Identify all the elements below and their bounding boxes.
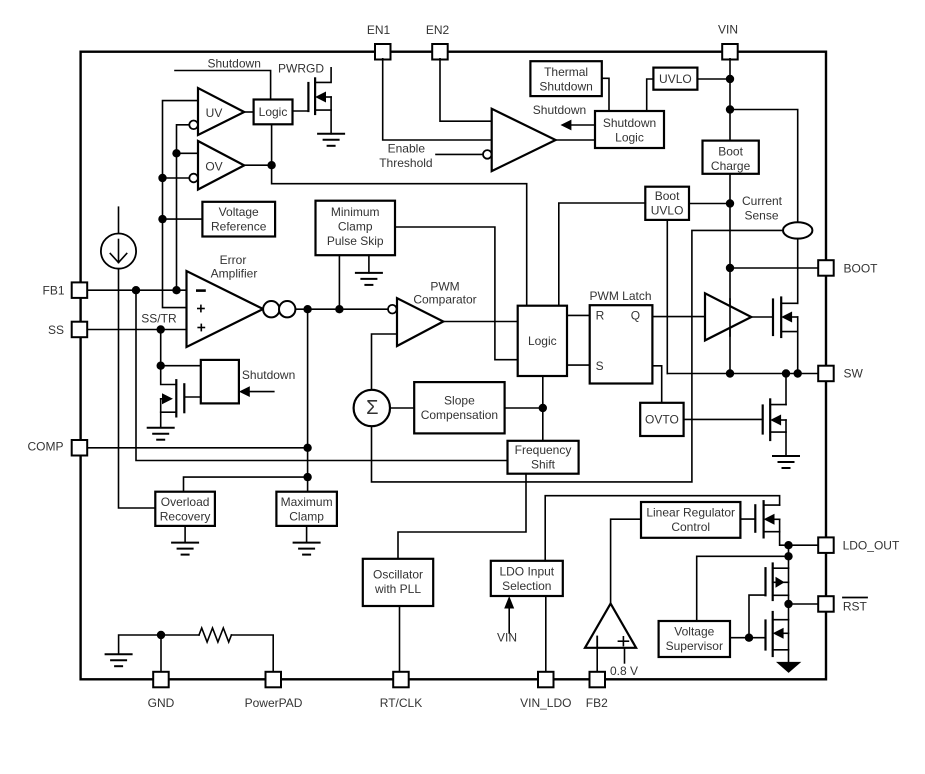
pin EN2: [426, 23, 450, 60]
wire Overload Recovery output to COMP rail: [184, 477, 308, 492]
wire resistor to PowerPAD pin: [231, 635, 273, 671]
label Shutdown with arrow out of Shutdown Logic: [533, 103, 595, 130]
svg-text:Shutdown: Shutdown: [603, 116, 656, 130]
svg-text:Shutdown: Shutdown: [539, 80, 592, 94]
wire FB1 to error amplifier inverting input: [88, 289, 186, 291]
svg-text:PWM: PWM: [430, 280, 459, 294]
wire Voltage Reference to reference rail: [163, 218, 203, 220]
svg-text:LDO_OUT: LDO_OUT: [843, 539, 900, 553]
ground Maximum Clamp: [294, 543, 320, 555]
pin GND: [148, 672, 175, 710]
svg-text:Control: Control: [671, 520, 710, 534]
junction feedback rail at OV upper input: [172, 149, 180, 157]
svg-text:Logic: Logic: [615, 131, 644, 145]
junction LDO_OUT node: [784, 541, 792, 549]
wire sense tap to Voltage Supervisor: [697, 556, 789, 621]
comparator PWM: [397, 280, 477, 347]
block Logic (PWM control logic): [518, 306, 567, 376]
block Linear Regulator Control: [641, 502, 740, 538]
block Slope Compensation: [414, 382, 504, 433]
junction logic rail at slope compensation: [539, 404, 547, 412]
block Voltage Reference: [202, 202, 275, 237]
wire EN2 to enable comparator: [440, 59, 492, 121]
wire VIN rail below Boot Charge down to SW node: [729, 174, 731, 374]
wire sigma to Slope Compensation: [390, 407, 414, 409]
ground SS shutdown FET source: [148, 428, 174, 440]
svg-text:Charge: Charge: [711, 159, 751, 173]
junction FB1 node to frequency shift rail: [132, 286, 140, 294]
current source SS charge current: [101, 207, 136, 269]
junction SW at low side FET drain: [782, 369, 790, 377]
svg-text:Voltage: Voltage: [674, 625, 714, 639]
block Logic (power good logic): [254, 100, 293, 125]
wire EN1 to enable comparator: [383, 59, 492, 140]
comparator UV: [198, 88, 244, 135]
junction boot rail at BOOT pin wire: [726, 264, 734, 272]
junction SS clamp node: [157, 362, 165, 370]
pin BOOT: [818, 260, 878, 276]
wire BOOT pin: [730, 267, 818, 269]
wire RST pin: [789, 603, 819, 605]
wire SS node down to shutdown clamp: [160, 330, 162, 366]
junction SW at high side FET source: [794, 369, 802, 377]
ground flag (filled triangle) at RST rail: [776, 662, 801, 673]
wire PWM comparator output to Logic: [443, 321, 517, 323]
node COMP vertical rail: [307, 309, 309, 492]
wire Boot UVLO to PWM logic: [559, 203, 646, 306]
wire error amplifier output to PWM comparator: [295, 308, 388, 310]
svg-text:LDO Input: LDO Input: [499, 565, 554, 579]
svg-text:Threshold: Threshold: [379, 156, 432, 170]
junction reference rail at Voltage Reference: [158, 215, 166, 223]
label Enable Threshold with wire to comparator bubble input: [379, 142, 483, 171]
wire Slope Compensation to logic rail: [505, 407, 543, 409]
svg-text:VIN: VIN: [718, 23, 738, 37]
wire Logic to latch S input: [567, 364, 590, 366]
svg-text:Amplifier: Amplifier: [211, 267, 258, 281]
wire LDO comparator output to Linear Regulator Control: [611, 519, 641, 603]
wire Oscillator to RT/CLK pin: [399, 606, 401, 671]
junction minimum clamp tap: [335, 305, 343, 313]
block Voltage Supervisor: [659, 621, 730, 657]
svg-text:Supervisor: Supervisor: [666, 639, 723, 653]
wire Shutdown signal to Logic: [175, 57, 271, 100]
svg-text:Minimum: Minimum: [331, 205, 380, 219]
svg-text:Recovery: Recovery: [160, 510, 211, 524]
svg-text:Error: Error: [220, 253, 247, 267]
transistor low side FET: [763, 374, 786, 457]
op-amp LDO feedback comparator: [585, 604, 636, 648]
svg-text:Boot: Boot: [718, 145, 743, 159]
wire Boot UVLO to boot rail: [689, 203, 730, 205]
wire OV upper input tap: [177, 152, 199, 154]
junction reference rail at OV lower input: [158, 174, 166, 182]
pin RST (active low): [818, 596, 867, 613]
svg-text:PWM Latch: PWM Latch: [590, 289, 652, 303]
svg-text:COMP: COMP: [28, 440, 64, 454]
junction RST node: [784, 600, 792, 608]
wire current sense output to summing node: [372, 230, 784, 482]
ground Overload Recovery: [172, 543, 198, 555]
wire reference rail to UV upper input and error amp + input: [163, 101, 199, 308]
svg-text:VIN: VIN: [497, 631, 517, 645]
wire current source to Overload Recovery: [119, 269, 156, 508]
block Shutdown Logic: [595, 111, 664, 148]
wire OVTO to low side FET gate: [684, 418, 763, 420]
svg-text:with PLL: with PLL: [374, 582, 421, 596]
block Overload Recovery: [155, 492, 215, 526]
svg-text:PWRGD: PWRGD: [278, 62, 324, 76]
wire Logic to PWRGD transistor gate: [293, 110, 309, 112]
svg-text:FB1: FB1: [42, 284, 64, 298]
wire VIN to current sense branch: [730, 110, 798, 223]
ground chassis at GND network: [106, 654, 132, 666]
comparator enable: [492, 109, 556, 171]
wire OV lower input from reference rail: [163, 177, 190, 179]
wire FB1 down to Frequency Shift: [136, 290, 508, 460]
wire Overload Recovery ground stub: [184, 526, 186, 543]
wire UV output to Logic: [244, 111, 253, 113]
wire UVLO to VIN rail: [697, 78, 730, 80]
junction COMP node at error amp output: [303, 305, 311, 313]
svg-text:Maximum: Maximum: [281, 495, 333, 509]
label Shutdown with arrow into clamp block: [239, 368, 295, 397]
pin COMP: [28, 440, 88, 456]
block Thermal Shutdown: [530, 61, 601, 96]
pin SS: [48, 322, 87, 338]
svg-text:R: R: [596, 309, 605, 323]
input bubble UV lower input: [189, 121, 198, 130]
svg-text:UV: UV: [206, 106, 223, 120]
wire Boot UVLO bottom to SW line: [666, 220, 668, 374]
transistor SS shutdown discharge FET: [161, 366, 201, 428]
svg-text:Shutdown: Shutdown: [208, 57, 261, 71]
ground PWRGD source: [318, 134, 344, 146]
svg-text:Logic: Logic: [528, 334, 557, 348]
current sense element (ellipse): [783, 222, 812, 238]
svg-text:PowerPAD: PowerPAD: [245, 696, 303, 710]
svg-text:Comparator: Comparator: [413, 293, 476, 307]
svg-text:RST: RST: [843, 600, 868, 614]
block Minimum Clamp Pulse Skip: [316, 201, 396, 256]
input bubble OV lower input: [189, 174, 198, 183]
svg-text:Pulse Skip: Pulse Skip: [327, 234, 384, 248]
wire Logic bottom to OV output node and across to PWM Logic: [272, 124, 527, 305]
wire 0.8V reference stub: [624, 648, 626, 663]
svg-text:SS/TR: SS/TR: [141, 312, 177, 326]
wire Minimum Clamp tap to error amp output: [338, 255, 340, 309]
svg-text:UVLO: UVLO: [659, 72, 692, 86]
svg-text:Shutdown: Shutdown: [533, 103, 586, 117]
block OVTO: [640, 403, 683, 436]
transistor RST upper FET: [749, 564, 789, 638]
wire Thermal Shutdown to Shutdown Logic: [602, 78, 609, 111]
junction COMP rail at COMP pin wire: [303, 444, 311, 452]
wire FB2 pin to comparator input: [596, 648, 598, 671]
transistor LDO pass FET: [740, 501, 788, 545]
svg-text:Linear Regulator: Linear Regulator: [646, 506, 735, 520]
svg-text:GND: GND: [148, 696, 175, 710]
wire COMP pin: [88, 447, 307, 449]
label Current Sense: [742, 194, 783, 223]
block Boot UVLO: [645, 187, 689, 220]
wire VIN_LDO pin to LDO Input Selection: [545, 596, 547, 671]
svg-text:Voltage: Voltage: [219, 205, 259, 219]
svg-text:Reference: Reference: [211, 220, 267, 234]
svg-text:EN2: EN2: [426, 23, 450, 37]
ground Minimum Clamp: [356, 273, 382, 285]
wire latch to OVTO: [652, 366, 661, 403]
pin VIN_LDO: [520, 672, 571, 710]
block UVLO: [653, 68, 697, 90]
pin PowerPAD: [245, 672, 303, 710]
buffer gate driver: [705, 293, 751, 340]
pin VIN: [718, 23, 738, 60]
wire SS to error amplifier input: [88, 329, 186, 331]
junction FB1 node to UV/OV rail: [172, 286, 180, 294]
block Maximum Clamp: [276, 492, 337, 526]
svg-text:SW: SW: [844, 367, 864, 381]
wire LDO_OUT node down rail to ground flag: [788, 545, 790, 662]
wire feedback rail UV lower input to FB1 node: [177, 125, 190, 290]
svg-text:0.8 V: 0.8 V: [610, 664, 638, 678]
pin LDO_OUT: [818, 537, 900, 553]
junction VIN rail at UVLO: [726, 75, 734, 83]
svg-text:FB2: FB2: [586, 696, 608, 710]
wire OV output: [244, 164, 271, 166]
wire latch Q output to gate driver: [652, 316, 705, 318]
svg-text:Q: Q: [631, 309, 640, 323]
svg-text:Compensation: Compensation: [421, 408, 498, 422]
pin SW: [818, 366, 863, 382]
transistor PWRGD (open-drain output FET): [278, 62, 331, 134]
wire SS clamp node to shutdown block: [161, 365, 201, 367]
wire Maximum Clamp ground stub: [306, 526, 308, 543]
resistor GND to PowerPAD: [199, 628, 231, 642]
input bubble enable threshold: [483, 150, 492, 159]
svg-text:Enable: Enable: [388, 142, 426, 156]
svg-text:Shutdown: Shutdown: [242, 368, 295, 382]
wire Logic bottom to Frequency Shift: [542, 376, 544, 441]
svg-text:Boot: Boot: [655, 189, 680, 203]
junction OV output node: [267, 161, 275, 169]
junction VIN rail current sense branch: [726, 105, 734, 113]
block Frequency Shift: [508, 441, 579, 474]
svg-text:Selection: Selection: [502, 579, 551, 593]
wire UVLO to Shutdown Logic: [647, 79, 654, 111]
IC boundary: [81, 52, 826, 680]
junction boot rail at Boot UVLO: [726, 199, 734, 207]
ground low side FET source: [773, 456, 799, 468]
junction LDO_OUT sense tap: [784, 552, 792, 560]
wire ground stub to GND rail: [119, 635, 199, 654]
block PWM Latch: [590, 289, 653, 384]
summing node sigma: [354, 390, 390, 426]
wire ellipse to high side FET drain: [797, 239, 799, 304]
svg-text:Shift: Shift: [531, 458, 556, 472]
svg-text:Sense: Sense: [744, 209, 778, 223]
wire VIN rail top: [729, 59, 731, 141]
svg-text:Oscillator: Oscillator: [373, 568, 423, 582]
svg-text:S: S: [596, 359, 604, 373]
svg-text:Clamp: Clamp: [289, 510, 324, 524]
wire GND pin stub: [160, 635, 162, 671]
block Boot Charge: [703, 141, 759, 174]
svg-text:VIN_LDO: VIN_LDO: [520, 696, 571, 710]
svg-text:UVLO: UVLO: [651, 204, 684, 218]
svg-text:BOOT: BOOT: [844, 262, 879, 276]
label VIN with arrow into LDO Input Selection: [497, 596, 517, 645]
svg-text:Logic: Logic: [259, 105, 288, 119]
wire LDO_OUT pin: [789, 544, 819, 546]
transistor RST lower FET: [749, 612, 789, 656]
block shutdown clamp (square): [201, 360, 239, 404]
wire Logic to latch R input: [567, 314, 590, 316]
junction GND rail at GND pin: [157, 631, 165, 639]
svg-text:OV: OV: [205, 160, 222, 174]
svg-text:RT/CLK: RT/CLK: [380, 696, 422, 710]
junction gate node of RST FETs: [745, 634, 753, 642]
pin EN1: [367, 23, 391, 60]
pin RT/CLK: [380, 672, 422, 710]
comparator OV: [198, 141, 244, 190]
svg-text:Current: Current: [742, 194, 783, 208]
svg-text:Thermal: Thermal: [544, 65, 588, 79]
svg-text:Slope: Slope: [444, 394, 475, 408]
svg-text:Frequency: Frequency: [515, 443, 572, 457]
svg-text:Clamp: Clamp: [338, 220, 373, 234]
wire summing node to PWM comparator input: [372, 334, 398, 390]
wire Frequency Shift to Oscillator: [398, 474, 526, 559]
junction SW at boot rail: [726, 369, 734, 377]
junction SS node: [157, 325, 165, 333]
block Oscillator with PLL: [363, 559, 433, 606]
block LDO Input Selection: [491, 561, 563, 596]
wire Minimum Clamp ground stub: [368, 255, 370, 273]
op-amp error amplifier: [187, 253, 264, 347]
junction COMP rail at overload recovery: [303, 473, 311, 481]
svg-text:Overload: Overload: [161, 495, 210, 509]
svg-text:Σ: Σ: [366, 397, 378, 419]
error amplifier output gm symbol circles: [263, 301, 279, 317]
wire Voltage Supervisor output to gates: [730, 637, 749, 639]
wire LDO Input Selection to pass FET drain: [545, 496, 779, 561]
pin FB1: [42, 282, 87, 298]
input bubble PWM comparator: [388, 305, 397, 314]
wire SW line: [667, 373, 818, 375]
svg-text:EN1: EN1: [367, 23, 391, 37]
svg-text:OVTO: OVTO: [645, 413, 679, 427]
svg-text:SS: SS: [48, 323, 64, 337]
wire enable comparator output to Shutdown Logic: [556, 139, 595, 141]
wire Minimum Clamp to PWM logic: [395, 227, 518, 360]
wire boot rail through driver continues (drawn above triangle redraw): [729, 299, 731, 336]
pin FB2: [586, 672, 608, 710]
transistor high side power FET: [751, 298, 797, 374]
